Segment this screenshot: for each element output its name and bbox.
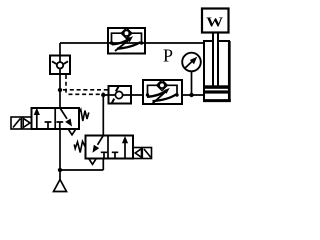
wire middle line (junction through check valve to flow control) [103, 94, 143, 96]
cylinder piston [204, 85, 229, 89]
V2 right box: blocked port T [112, 152, 118, 158]
V1 left box: blocked port T [45, 122, 52, 129]
wire gauge stem [191, 72, 193, 96]
node junction dot gauge [189, 93, 193, 97]
V2 left box: diagonal arrow to exhaust [98, 136, 104, 145]
V2 actuator (pilot + solenoid) [133, 148, 152, 159]
valve V1 (3/2 directional, solenoid-pilot left, spring right) [11, 108, 89, 135]
flow control valve FCV2 (lower, throttle with bypass check) [143, 80, 182, 104]
svg-text:W: W [206, 15, 223, 30]
wire middle line right (flow control to cylinder) [182, 94, 204, 96]
node junction dot left (pilot tap) [58, 88, 62, 92]
V2 right box: up arrow [124, 142, 126, 159]
wire left vertical upper (corner to valve1 top port) [59, 43, 61, 108]
exhaust triangle (bottom) [54, 180, 67, 192]
wire pilot dashed horizontal lower [69, 93, 102, 95]
FCV1 check ball and seat [124, 30, 130, 36]
node junction dot bottom [58, 168, 62, 172]
V1 right box: diagonal arrow to exhaust [60, 108, 67, 119]
FCV1 adjustment arrow [115, 40, 130, 52]
V1 actuator (solenoid + pilot) [11, 117, 32, 129]
flow control valve FCV1 (top, throttle with bypass check) [108, 28, 145, 54]
FCV2 check ball and seat [159, 83, 165, 89]
cylinder (vertical, rod up) [203, 33, 231, 103]
V1 left box: up arrow [36, 114, 38, 129]
cylinder piston rod [213, 33, 218, 86]
wire pilot dashed horizontal upper [63, 89, 108, 91]
check valve CV2 (horizontal, middle) [109, 86, 132, 104]
cylinder barrel walls [203, 41, 205, 102]
wire valve2 top port line [102, 93, 104, 136]
V2 spring [74, 141, 85, 152]
FCV1 bypass line with junction dots [112, 33, 142, 43]
V1 right box: blocked port T [56, 122, 63, 129]
FCV1 throttle arcs [112, 38, 130, 45]
CV1 ball and seat [57, 62, 63, 68]
pressure gauge P [182, 53, 201, 72]
V2 left box: blocked port T [101, 152, 107, 158]
V1 exhaust vee [69, 129, 76, 134]
wire pilot dashed vertical [65, 75, 67, 94]
load W box [202, 9, 229, 33]
FCV2 bypass line with junction dots [148, 85, 178, 95]
check valve CV1 (vertical, left) [50, 56, 70, 75]
wire top pipe from corner to cylinder [60, 42, 204, 44]
valve V2 (3/2 directional, spring left, solenoid-pilot right) [74, 136, 151, 165]
V1 spring [79, 110, 89, 122]
wire left vertical lower (valve1 bottom port to exhaust triangle) [59, 129, 61, 180]
wire valve2 bottom port riser [102, 159, 104, 171]
CV2 ball and seat [115, 91, 122, 98]
node junction dot middle [101, 93, 105, 97]
svg-text:P: P [163, 46, 173, 66]
V2 exhaust vee [89, 159, 96, 164]
FCV2 adjustment arrow [152, 91, 166, 104]
FCV2 throttle arcs [147, 90, 167, 97]
wire bottom horizontal (junction to valve2 bottom port) [60, 169, 103, 171]
